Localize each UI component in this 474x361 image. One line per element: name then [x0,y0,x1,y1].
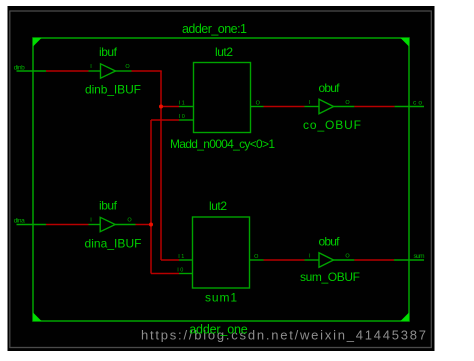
svg-text:O: O [125,64,130,70]
svg-text:https://blog.csdn.net/weixin_4: https://blog.csdn.net/weixin_41445387 [141,328,426,343]
wire co_OBUF output [354,106,394,108]
junction node dinb net [159,105,163,109]
svg-text:co_OBUF: co_OBUF [303,118,361,132]
svg-text:sum_OBUF: sum_OBUF [300,270,360,284]
svg-text:obuf: obuf [319,81,341,95]
svg-text:dinb: dinb [14,64,25,71]
svg-text:lut2: lut2 [215,45,233,59]
port sum [394,253,425,260]
module block adder_one:1 [33,38,409,321]
lut2 sum1 [177,199,263,305]
net dina_IBUF wires [136,120,180,274]
svg-text:I1: I1 [179,100,185,106]
wire sum_OBUF output [354,259,394,261]
svg-text:ibuf: ibuf [99,45,118,59]
svg-text:co: co [413,99,422,106]
port dina [14,218,46,225]
svg-text:ibuf: ibuf [99,199,118,213]
svg-text:adder_one: adder_one [189,323,248,337]
svg-text:sum: sum [414,253,425,260]
wire dina to ibuf [46,224,89,226]
svg-text:lut2: lut2 [209,199,227,213]
junction node dina net [149,223,153,227]
svg-text:Madd_n0004_cy<0>1: Madd_n0004_cy<0>1 [170,137,275,151]
wire dinb to ibuf [46,70,89,72]
svg-text:O: O [345,254,350,260]
svg-text:adder_one:1: adder_one:1 [182,22,247,36]
svg-text:I0: I0 [179,114,185,120]
wire lut2 Madd output to obuf [264,106,305,108]
lut2 Madd_n0004_cy<0>1 [170,45,275,151]
port co [395,99,424,106]
svg-text:dina_IBUF: dina_IBUF [85,237,142,251]
svg-text:O: O [256,100,261,106]
svg-text:dinb_IBUF: dinb_IBUF [85,83,141,97]
svg-text:O: O [127,218,132,224]
wire lut2 sum1 output to obuf [264,259,305,261]
svg-text:I0: I0 [177,267,183,273]
svg-text:I1: I1 [178,254,184,260]
svg-text:O: O [345,100,350,106]
svg-text:sum1: sum1 [205,291,237,305]
svg-text:O: O [254,254,259,260]
net dinb_IBUF wires [132,71,180,260]
svg-text:dina: dina [14,218,25,225]
port dinb [14,64,46,71]
buffer dinb_IBUF [85,45,141,97]
buffer sum_OBUF [300,235,360,284]
svg-text:obuf: obuf [319,235,341,249]
buffer co_OBUF [303,81,361,132]
buffer dina_IBUF [85,199,142,251]
